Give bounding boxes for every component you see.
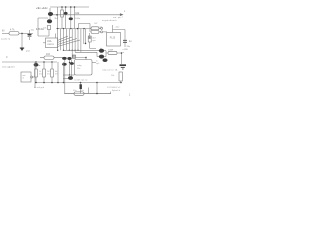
wire arrow xyxy=(120,13,124,16)
capacitor C7 xyxy=(80,83,82,85)
left input label xyxy=(2,30,5,33)
resistor R15 xyxy=(65,93,74,95)
transistor Q6 xyxy=(67,57,71,60)
wire stub xyxy=(74,7,76,29)
wire bus A xyxy=(57,7,59,29)
bottom right labels xyxy=(107,87,121,92)
svg-text:0v rail gnd: 0v rail gnd xyxy=(34,86,45,89)
svg-text:vr: vr xyxy=(123,51,125,54)
wire box3 to spk xyxy=(92,62,96,64)
svg-text:gnd: gnd xyxy=(26,51,30,53)
wire upper right branch xyxy=(79,24,91,32)
wire pin fan xyxy=(58,36,81,47)
resistor R18 xyxy=(88,36,91,42)
relay box M2 xyxy=(75,60,93,76)
ground bar right xyxy=(120,64,127,66)
label 100n xyxy=(75,12,81,20)
wire below Q6 xyxy=(69,60,71,75)
svg-text:npn: npn xyxy=(92,40,96,42)
svg-text:10u: 10u xyxy=(31,30,35,32)
connector circles xyxy=(99,28,101,32)
ground xyxy=(20,47,24,49)
svg-text:5%: 5% xyxy=(47,74,50,76)
wire xyxy=(19,32,33,34)
transistor Q5 xyxy=(62,57,67,60)
label corner xyxy=(129,95,131,97)
svg-text:+12v: +12v xyxy=(115,27,121,29)
junction dots bus xyxy=(35,82,37,84)
op-amp box U1 xyxy=(46,38,58,48)
svg-text:out - pin 7: out - pin 7 xyxy=(113,16,124,19)
junction xyxy=(56,14,58,16)
capacitor C1 polarized xyxy=(29,30,31,34)
svg-text:5%: 5% xyxy=(55,74,58,76)
vertical comb below bus xyxy=(58,29,84,58)
label out xyxy=(124,11,126,13)
svg-text:relay coil nc / 1A: relay coil nc / 1A xyxy=(102,69,118,72)
resistor R10 xyxy=(44,56,54,59)
resistor R11 xyxy=(35,69,38,77)
svg-text:D2: D2 xyxy=(95,23,99,25)
label D2 xyxy=(95,23,99,25)
junction xyxy=(21,33,23,35)
svg-text:PL35: PL35 xyxy=(110,37,116,39)
wire through R10 xyxy=(40,57,64,59)
wire bus G xyxy=(85,29,87,43)
svg-text:25v: 25v xyxy=(127,46,131,48)
bottom bus 2 xyxy=(64,93,111,95)
node VCC label xyxy=(36,6,48,10)
capacitor C5 xyxy=(123,40,127,42)
svg-text:100R: 100R xyxy=(108,49,114,51)
svg-text:spk: spk xyxy=(96,63,100,65)
label below xyxy=(1,39,10,41)
svg-text:tp: tp xyxy=(6,56,9,59)
svg-text:5: 5 xyxy=(124,11,126,13)
label under bus xyxy=(2,66,15,69)
label left of R3 xyxy=(43,28,47,30)
label above Q9 xyxy=(100,48,102,50)
transistor Q2 xyxy=(47,19,52,23)
transistor Q3 xyxy=(65,7,67,12)
svg-text:D1 1N4007 x2: D1 1N4007 x2 xyxy=(107,87,121,89)
svg-text:1u: 1u xyxy=(129,41,132,43)
transistor Q9 xyxy=(99,49,104,53)
resistor R14 xyxy=(73,55,76,58)
svg-text:100n: 100n xyxy=(75,18,81,20)
transistor Q1 xyxy=(48,12,53,16)
transistor Q3b xyxy=(70,7,72,17)
svg-text:sens adjust tr: sens adjust tr xyxy=(2,66,15,69)
svg-text:2k2: 2k2 xyxy=(55,18,59,20)
wire box to bus xyxy=(33,62,35,88)
svg-text:5%: 5% xyxy=(39,74,42,76)
label row xyxy=(102,69,118,72)
wire into U2 xyxy=(103,31,107,33)
label right of Q2 xyxy=(55,18,59,20)
resistor R9 xyxy=(91,30,99,33)
wire xyxy=(49,16,51,19)
svg-text:(audio in): (audio in) xyxy=(1,39,10,41)
svg-text:4.7k 1k: 4.7k 1k xyxy=(36,28,45,31)
wire left of relay xyxy=(72,60,75,79)
transistor Q10 xyxy=(99,55,104,59)
svg-text:103: 103 xyxy=(46,54,51,56)
wire mid bus xyxy=(2,61,57,63)
main bottom bus xyxy=(35,82,121,84)
label in1 xyxy=(100,27,104,29)
wire left pin xyxy=(43,42,46,44)
svg-text:in: in xyxy=(23,77,25,79)
svg-text:1: 1 xyxy=(129,95,131,97)
transistor Q8 xyxy=(63,78,68,80)
svg-text:10k: 10k xyxy=(111,75,115,77)
transistor Q11 xyxy=(103,58,108,62)
label mid left xyxy=(6,56,9,59)
svg-text:flyback d: flyback d xyxy=(112,90,121,92)
wire bus down L xyxy=(58,58,65,94)
wire xyxy=(38,18,49,36)
wire xyxy=(49,8,51,12)
svg-text:LM393: LM393 xyxy=(47,44,54,46)
resistor labels xyxy=(39,71,59,76)
resistor R13 xyxy=(51,62,53,69)
svg-text:+9v +12v: +9v +12v xyxy=(36,6,48,10)
resistor R17 xyxy=(119,72,122,81)
svg-text:4.7k: 4.7k xyxy=(10,30,15,32)
transistor Q7 xyxy=(62,63,67,66)
wire relay bottom xyxy=(63,74,75,76)
wire to gnd2 xyxy=(117,53,122,64)
wire main out xyxy=(53,14,123,16)
wire down to ground xyxy=(21,33,23,48)
resistor R8 xyxy=(91,27,99,30)
label under bus xyxy=(34,86,45,89)
horizontal bus mid xyxy=(56,28,91,30)
wire Q to R xyxy=(104,51,108,57)
wire top of U2 xyxy=(113,25,126,47)
IC box U2 xyxy=(107,33,121,47)
junction xyxy=(35,61,37,63)
svg-text:bc547 npn sw: bc547 npn sw xyxy=(75,80,88,82)
svg-text:U1A: U1A xyxy=(47,40,52,43)
resistor R16 xyxy=(108,51,117,54)
resistor R12 xyxy=(43,62,45,69)
svg-text:IN: IN xyxy=(2,30,5,33)
resistor R1 xyxy=(9,32,19,35)
wire right vert xyxy=(96,83,98,94)
resistor R3 xyxy=(47,26,50,30)
pin stub above U1 xyxy=(55,34,57,39)
svg-text:25v: 25v xyxy=(81,90,85,92)
svg-text:to gate driver b: to gate driver b xyxy=(102,19,117,22)
horizontals to right xyxy=(64,50,100,56)
power rail top xyxy=(50,6,89,8)
svg-text:10u: 10u xyxy=(73,90,77,92)
wire input xyxy=(2,32,9,34)
box module M1 xyxy=(21,72,31,82)
transistor Q4 xyxy=(35,62,37,63)
label above U1 xyxy=(36,28,45,31)
resistor R4 xyxy=(61,7,63,10)
